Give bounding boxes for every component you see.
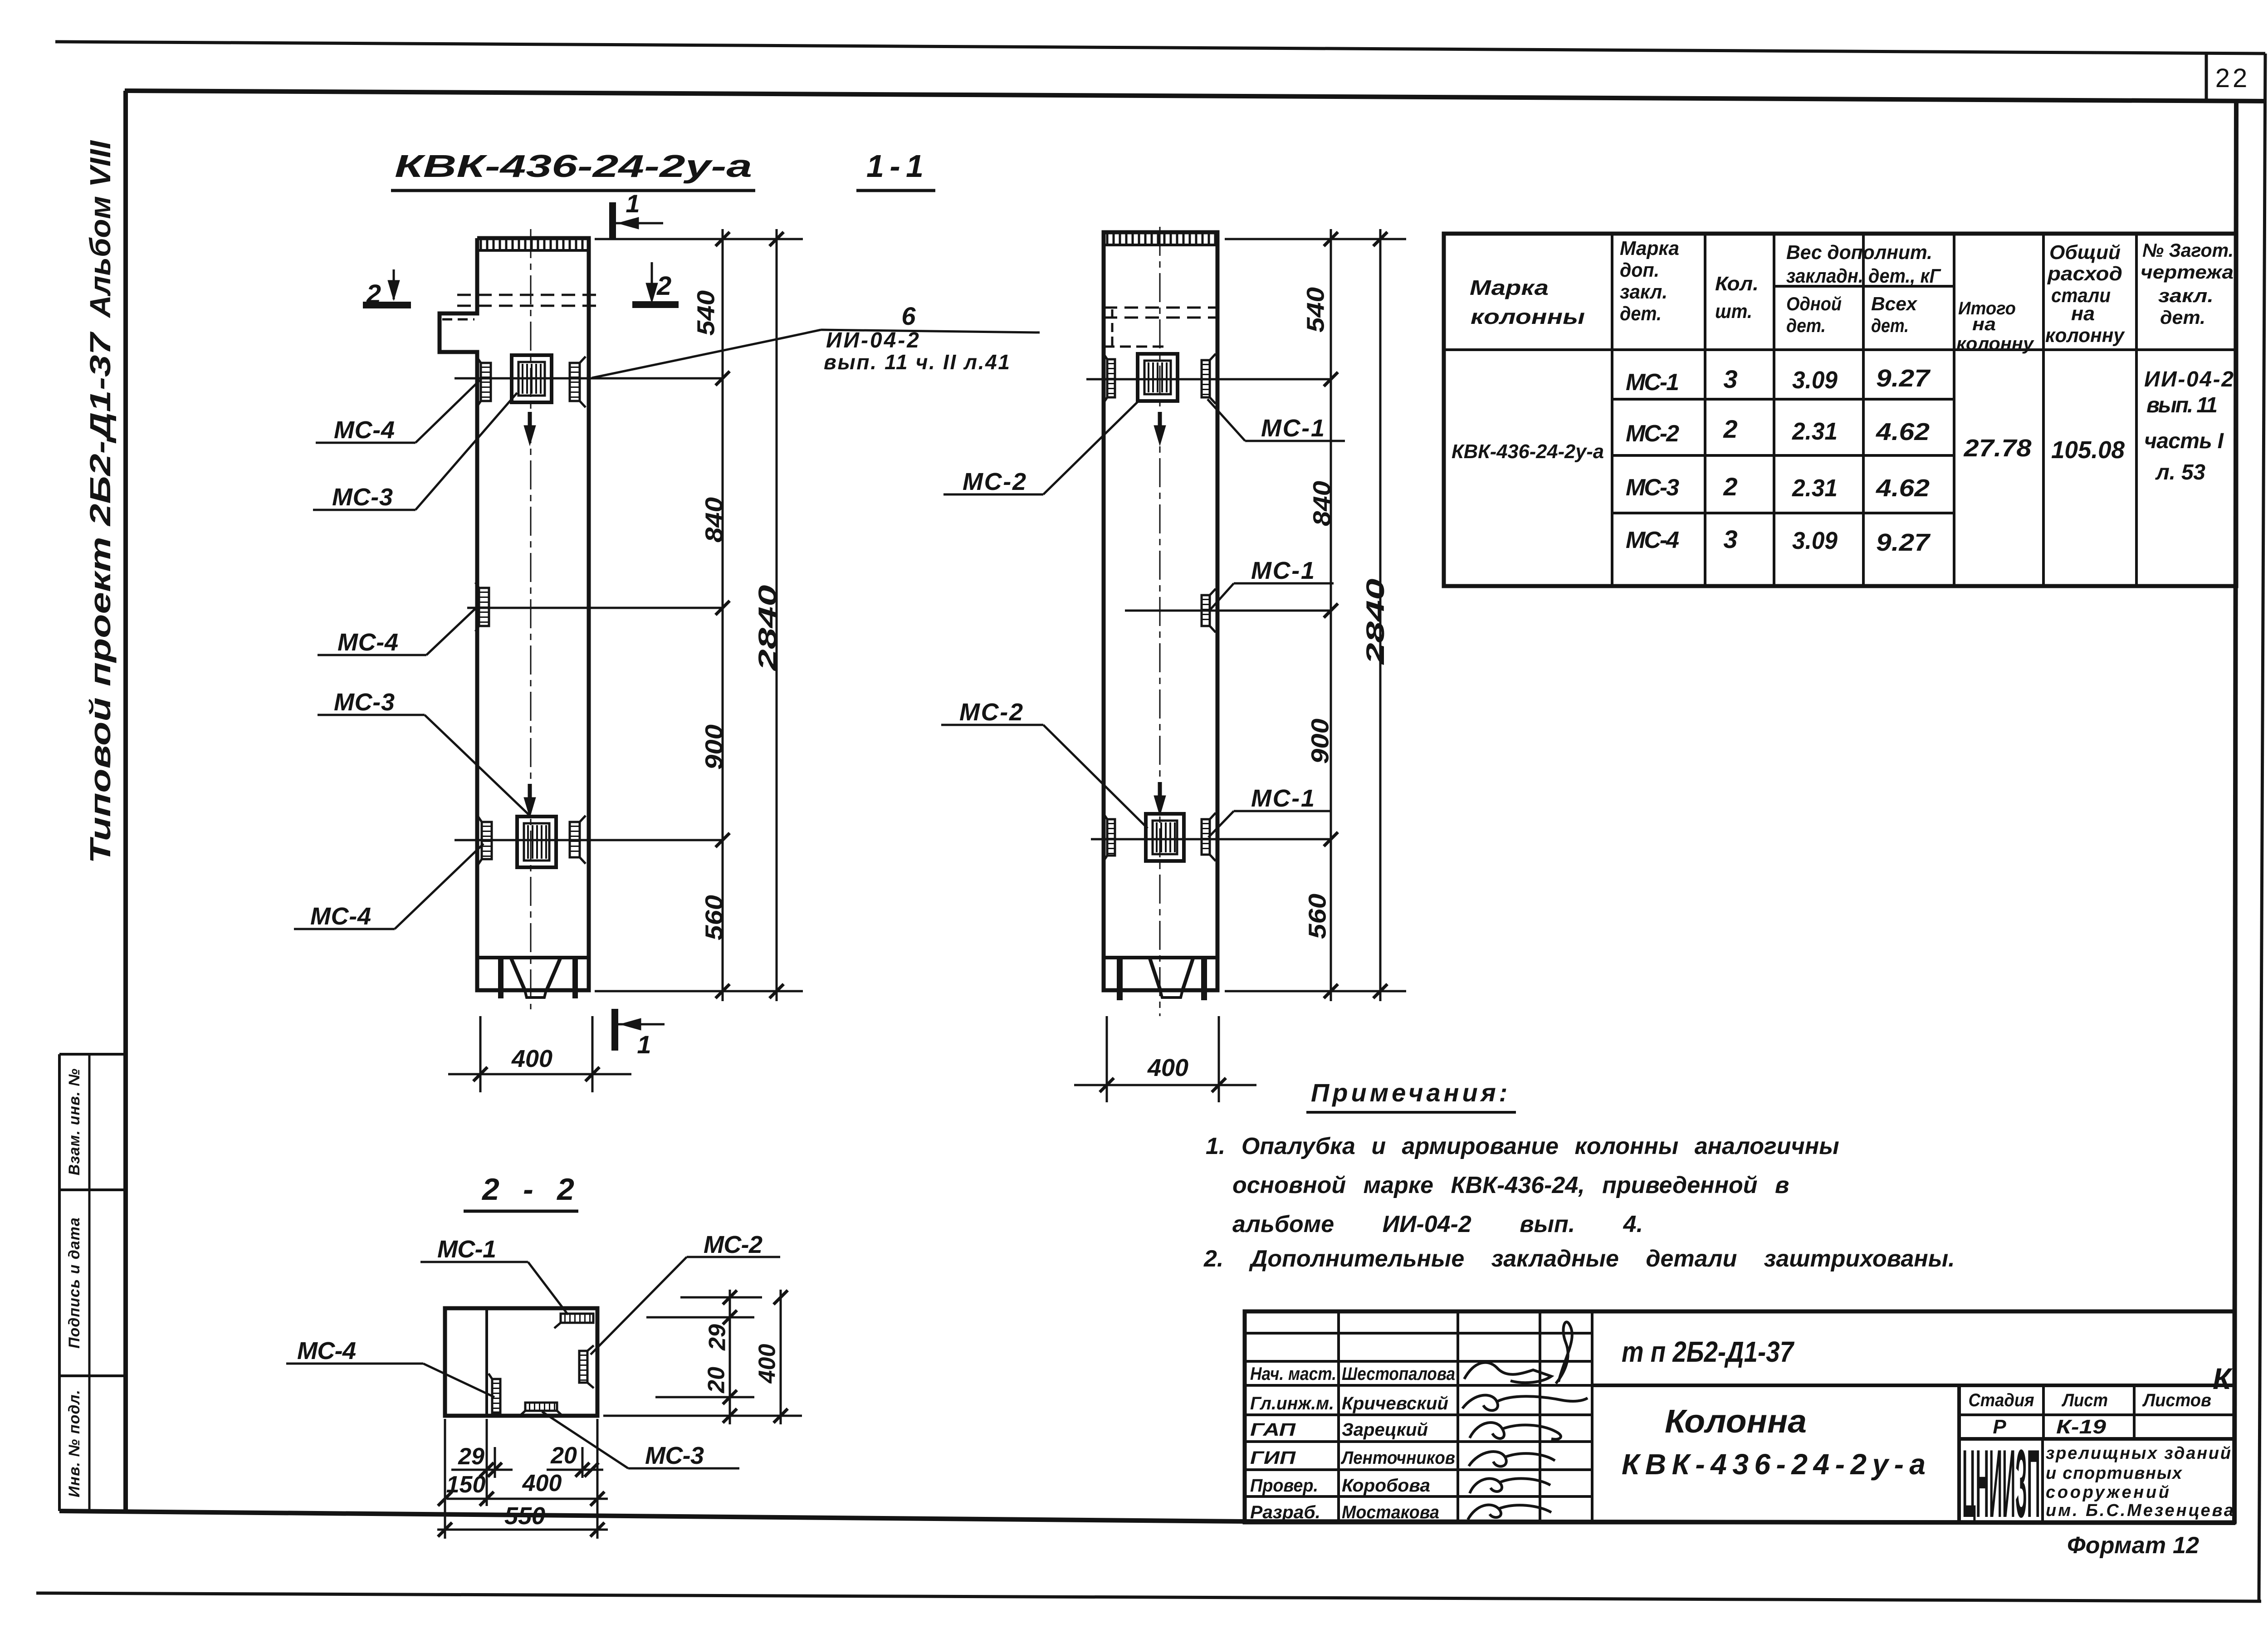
svg-text:2: 2 — [1723, 472, 1737, 501]
svg-text:400: 400 — [754, 1344, 781, 1384]
svg-text:Колонна: Колонна — [1665, 1403, 1807, 1440]
svg-text:МС-2: МС-2 — [704, 1231, 763, 1258]
svg-text:560: 560 — [1304, 894, 1331, 939]
svg-text:дет.: дет. — [1620, 303, 1662, 325]
svg-text:Провер.: Провер. — [1250, 1476, 1318, 1496]
svg-text:на: на — [1972, 314, 1996, 334]
svg-text:т п 2Б2-Д1-37: т п 2Б2-Д1-37 — [1622, 1335, 1795, 1368]
svg-text:2840: 2840 — [753, 585, 782, 672]
svg-text:дет.: дет. — [1871, 315, 1909, 336]
svg-text:1: 1 — [637, 1030, 651, 1059]
svg-text:2840: 2840 — [1361, 579, 1389, 665]
svg-text:и спортивных: и спортивных — [2046, 1464, 2183, 1483]
svg-text:22: 22 — [2215, 64, 2250, 93]
svg-text:Взам. инв. №: Взам. инв. № — [66, 1068, 83, 1176]
svg-text:Гл.инж.м.: Гл.инж.м. — [1250, 1394, 1334, 1413]
svg-text:Листов: Листов — [2142, 1390, 2211, 1410]
svg-text:часть I: часть I — [2144, 429, 2224, 453]
svg-text:840: 840 — [700, 497, 728, 543]
svg-text:МС-1: МС-1 — [1251, 785, 1315, 812]
svg-text:МС-4: МС-4 — [1626, 527, 1679, 553]
svg-text:Типовой проект 2Б2-Д1-37: Типовой проект 2Б2-Д1-37 — [84, 331, 117, 864]
svg-text:закладн. дет., кГ: закладн. дет., кГ — [1786, 265, 1941, 287]
svg-text:Всех: Всех — [1871, 293, 1918, 314]
svg-text:3.09: 3.09 — [1792, 527, 1838, 554]
svg-text:К: К — [2213, 1362, 2233, 1395]
svg-text:МС-1: МС-1 — [1251, 557, 1315, 584]
svg-text:2. Дополнительные закладные де: 2. Дополнительные закладные детали заштр… — [1203, 1246, 1955, 1272]
svg-text:МС-4: МС-4 — [310, 903, 371, 930]
svg-text:Вес дополнит.: Вес дополнит. — [1786, 241, 1932, 264]
svg-text:2: 2 — [366, 279, 381, 309]
svg-text:550: 550 — [504, 1502, 545, 1530]
svg-text:МС-2: МС-2 — [1626, 421, 1679, 447]
svg-text:МС-1: МС-1 — [437, 1236, 496, 1263]
svg-text:4.62: 4.62 — [1876, 418, 1930, 445]
svg-text:МС-2: МС-2 — [963, 468, 1026, 495]
svg-text:Зарецкий: Зарецкий — [1342, 1420, 1428, 1440]
svg-text:27.78: 27.78 — [1963, 435, 2031, 462]
svg-text:дет.: дет. — [1786, 315, 1826, 336]
svg-text:400: 400 — [522, 1470, 562, 1496]
svg-text:Подпись и дата: Подпись и дата — [66, 1217, 83, 1349]
svg-text:Марка: Марка — [1620, 237, 1679, 259]
svg-text:ГИП: ГИП — [1250, 1448, 1296, 1468]
svg-text:4.62: 4.62 — [1876, 474, 1930, 502]
svg-text:ГАП: ГАП — [1250, 1420, 1296, 1440]
svg-text:1: 1 — [626, 189, 640, 218]
svg-text:МС-3: МС-3 — [645, 1442, 704, 1469]
svg-text:расход: расход — [2047, 263, 2122, 285]
svg-text:МС-3: МС-3 — [334, 689, 395, 716]
svg-text:Альбом VIII: Альбом VIII — [84, 140, 117, 318]
svg-text:Коробова: Коробова — [1342, 1476, 1430, 1496]
svg-text:сооружений: сооружений — [2046, 1483, 2169, 1502]
svg-text:закл.: закл. — [2158, 285, 2214, 306]
svg-text:МС-1: МС-1 — [1261, 415, 1325, 442]
svg-text:Общий: Общий — [2049, 241, 2121, 264]
svg-text:Ленточников: Ленточников — [1340, 1448, 1455, 1468]
svg-text:альбоме ИИ-04-2 вып. 4.: альбоме ИИ-04-2 вып. 4. — [1232, 1211, 1643, 1237]
svg-text:МС-2: МС-2 — [959, 699, 1023, 726]
svg-text:зрелищных зданий: зрелищных зданий — [2046, 1444, 2231, 1463]
svg-text:Кричевский: Кричевский — [1342, 1394, 1448, 1413]
svg-text:МС-4: МС-4 — [337, 629, 398, 656]
svg-text:1. Опалубка и армирование коло: 1. Опалубка и армирование колонны аналог… — [1206, 1133, 1839, 1159]
svg-text:560: 560 — [700, 895, 728, 940]
svg-text:колонну: колонну — [2045, 324, 2125, 347]
svg-text:Разраб.: Разраб. — [1250, 1502, 1320, 1522]
svg-text:К-19: К-19 — [2056, 1416, 2107, 1438]
svg-text:закл.: закл. — [1620, 281, 1667, 303]
svg-text:840: 840 — [1308, 481, 1335, 526]
svg-text:чертежа: чертежа — [2141, 261, 2234, 283]
svg-text:400: 400 — [1147, 1054, 1188, 1081]
svg-text:№ Загот.: № Загот. — [2142, 240, 2234, 261]
svg-text:2.31: 2.31 — [1792, 474, 1838, 502]
svg-text:МС-4: МС-4 — [334, 416, 395, 444]
svg-text:Одной: Одной — [1786, 293, 1842, 314]
svg-text:основной марке КВК-436-24, при: основной марке КВК-436-24, приведенной в — [1232, 1172, 1789, 1198]
svg-text:Нач. маст.: Нач. маст. — [1250, 1364, 1336, 1384]
svg-text:дет.: дет. — [2160, 307, 2205, 328]
svg-text:на: на — [2071, 303, 2095, 325]
svg-text:540: 540 — [1302, 287, 1329, 333]
svg-text:105.08: 105.08 — [2051, 436, 2125, 464]
svg-text:1-1: 1-1 — [866, 148, 924, 184]
svg-text:29: 29 — [458, 1443, 484, 1470]
svg-text:9.27: 9.27 — [1876, 529, 1931, 556]
svg-text:20: 20 — [550, 1443, 577, 1469]
svg-text:Шестопалова: Шестопалова — [1342, 1364, 1455, 1384]
svg-text:вып. 11: вып. 11 — [2146, 393, 2218, 417]
svg-text:МС-1: МС-1 — [1626, 369, 1679, 396]
svg-text:2-2: 2-2 — [481, 1172, 574, 1207]
svg-text:Формат 12: Формат 12 — [2067, 1532, 2199, 1559]
svg-text:3: 3 — [1723, 365, 1737, 393]
svg-text:540: 540 — [692, 290, 719, 336]
svg-text:400: 400 — [511, 1045, 552, 1072]
svg-text:900: 900 — [700, 724, 728, 770]
svg-text:КВК-436-24-2у-а: КВК-436-24-2у-а — [395, 148, 752, 184]
svg-text:колонны: колонны — [1471, 305, 1585, 328]
svg-text:Кол.: Кол. — [1715, 273, 1759, 295]
svg-text:Марка: Марка — [1470, 276, 1549, 299]
svg-text:Инв. № подл.: Инв. № подл. — [66, 1389, 83, 1497]
svg-text:колонну: колонну — [1956, 334, 2034, 354]
svg-text:Р: Р — [1993, 1416, 2006, 1438]
svg-text:Стадия: Стадия — [1969, 1390, 2034, 1410]
svg-text:900: 900 — [1306, 719, 1334, 764]
svg-text:л. 53: л. 53 — [2155, 460, 2205, 484]
svg-text:МС-3: МС-3 — [332, 484, 393, 511]
svg-text:МС-4: МС-4 — [297, 1337, 356, 1364]
svg-text:им. Б.С.Мезенцева: им. Б.С.Мезенцева — [2046, 1501, 2234, 1520]
svg-text:вып. 11 ч. II л.41: вып. 11 ч. II л.41 — [824, 350, 1010, 374]
svg-text:6: 6 — [901, 302, 916, 330]
svg-text:КВК-436-24-2у-а: КВК-436-24-2у-а — [1452, 440, 1604, 463]
svg-text:2.31: 2.31 — [1792, 418, 1838, 445]
svg-text:МС-3: МС-3 — [1626, 474, 1679, 501]
svg-text:150: 150 — [446, 1472, 486, 1498]
svg-text:Мостакова: Мостакова — [1342, 1502, 1439, 1522]
svg-text:3: 3 — [1723, 525, 1737, 553]
svg-text:Примечания:: Примечания: — [1311, 1078, 1510, 1107]
svg-text:2: 2 — [656, 271, 671, 301]
svg-text:шт.: шт. — [1715, 300, 1752, 323]
svg-text:2: 2 — [1723, 415, 1737, 443]
svg-text:3.09: 3.09 — [1792, 367, 1838, 394]
svg-text:9.27: 9.27 — [1876, 365, 1931, 392]
svg-text:доп.: доп. — [1620, 259, 1659, 281]
svg-text:Лист: Лист — [2061, 1390, 2108, 1410]
svg-text:20: 20 — [704, 1367, 730, 1394]
svg-text:29: 29 — [704, 1324, 731, 1351]
